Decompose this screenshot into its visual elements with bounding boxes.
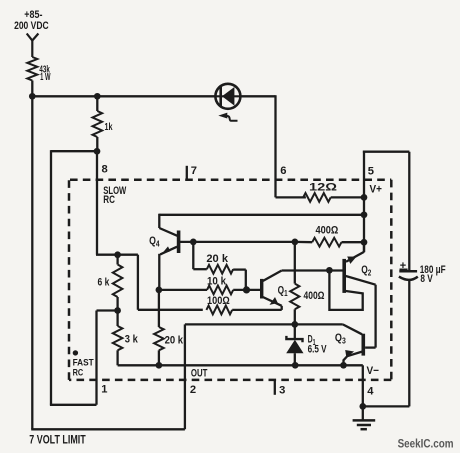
svg-text:1 W: 1 W: [40, 72, 51, 83]
resistor R 400 top: [312, 238, 341, 247]
wire rail 215: [159, 214, 364, 216]
label 180uF: [420, 264, 446, 276]
label 1k: [105, 122, 113, 133]
wire Q4 base rail: [179, 241, 295, 243]
label +85-200 VDC: [14, 9, 49, 32]
wire Q4em to 20kv: [158, 290, 160, 327]
resistor R 10k: [207, 286, 233, 295]
svg-text:2: 2: [190, 384, 196, 396]
label 7 VOLT LIMIT: [29, 434, 85, 446]
resistor R 100ohm: [206, 306, 232, 315]
svg-text:4: 4: [367, 386, 374, 398]
wire D1 rail: [185, 323, 343, 325]
label 43k 1W: [39, 64, 50, 83]
pin 3 stub: [274, 380, 276, 395]
transistor Q3: [343, 324, 364, 365]
svg-text:5: 5: [368, 165, 374, 177]
svg-text:RC: RC: [73, 367, 84, 378]
resistor R 12ohm: [303, 193, 331, 202]
svg-text:10 k: 10 k: [207, 275, 227, 287]
label 400 top: [316, 225, 339, 237]
label 8V: [420, 273, 433, 285]
wire pin6 to 12ohm: [276, 196, 306, 198]
resistor R 43k: [27, 57, 37, 81]
label Q4: [149, 235, 160, 249]
pin 7 label: [191, 165, 197, 177]
wire 20k to 10k node: [233, 270, 246, 290]
watermark SeekIC.com: [398, 438, 454, 450]
LED light arrow: [218, 113, 237, 121]
label Q1: [278, 285, 288, 299]
label Q2: [361, 264, 371, 278]
node 1k bottom junction: [94, 148, 101, 155]
wire Q2 base loop: [329, 270, 362, 310]
wire loop bottom: [50, 404, 97, 406]
svg-text:7: 7: [191, 165, 197, 177]
wire 400low vertical: [294, 242, 296, 284]
node 20k-10k junction: [243, 286, 250, 293]
node 400top left junction: [292, 239, 299, 246]
ground symbol: [353, 406, 376, 429]
wire pin1 lead vertical: [95, 311, 97, 405]
pin 3 label: [279, 384, 285, 396]
wire 20k drop: [193, 242, 207, 269]
svg-text:6: 6: [280, 165, 286, 177]
capacitor C plate bottom: [399, 277, 418, 280]
label Q3: [335, 332, 346, 346]
node 1k top junction: [94, 93, 101, 100]
node rail215 junction: [361, 211, 368, 218]
wire left outer vertical: [31, 96, 33, 429]
label OUT: [191, 367, 208, 379]
label 6k: [98, 276, 110, 288]
svg-text:100Ω: 100Ω: [207, 295, 230, 307]
svg-text:6.5 V: 6.5 V: [308, 343, 327, 355]
wire 400top left lead: [295, 241, 312, 244]
wire left loop vertical: [50, 150, 52, 405]
node D1 top junction: [291, 321, 298, 328]
wire 100ohm right lead: [232, 309, 282, 311]
input terminal arrow: [27, 34, 39, 58]
pin 6 label: [280, 165, 286, 177]
capacitor C plate top: [399, 270, 417, 273]
wire LED to pin6 corner: [241, 95, 276, 197]
svg-text:OUT: OUT: [191, 367, 208, 379]
LED indicator diode: [215, 84, 240, 109]
svg-text:SeekIC.com: SeekIC.com: [398, 438, 454, 450]
wire cap bottom link: [363, 405, 410, 407]
pin 5 label: [368, 165, 374, 177]
label D1: [308, 334, 316, 348]
wire 1k top lead: [96, 96, 98, 111]
node ground junction: [359, 403, 366, 410]
label 20k vert: [165, 335, 184, 347]
label V-: [367, 365, 380, 377]
wire 400low bottom: [294, 309, 296, 324]
wire Q1 collector to Q2 base: [282, 269, 343, 271]
svg-text:400Ω: 400Ω: [316, 225, 339, 237]
svg-text:20 k: 20 k: [206, 253, 228, 265]
IC package dashed outline: [69, 180, 391, 380]
node 6k-3k junction: [114, 307, 121, 314]
resistor R 20k horiz: [207, 265, 233, 274]
node fast-rc dot: [73, 350, 78, 355]
wire 10k left lead: [159, 289, 207, 291]
wire pin4 vertical: [362, 365, 364, 406]
label 6.5V: [308, 343, 327, 355]
label 10k: [207, 275, 227, 287]
svg-text:RC: RC: [103, 194, 115, 206]
wire 100ohm left riser: [96, 255, 203, 310]
wire 12ohm to V+: [331, 196, 364, 198]
wire bottom outer: [31, 428, 185, 430]
node V+ junction: [361, 194, 368, 201]
wire 6k3k to pin1: [97, 309, 118, 311]
transistor Q1: [262, 271, 282, 310]
resistor R 3k: [113, 311, 123, 366]
svg-text:1: 1: [101, 383, 107, 395]
svg-text:7 VOLT LIMIT: 7 VOLT LIMIT: [29, 434, 85, 446]
pin 8 lead: [96, 151, 98, 255]
node 400top right junction: [361, 239, 368, 246]
svg-text:6 k: 6 k: [98, 276, 110, 288]
svg-text:200 VDC: 200 VDC: [14, 20, 49, 32]
wire right box side: [408, 152, 410, 272]
wire slow-rc horizontal: [51, 150, 97, 152]
svg-text:3 k: 3 k: [125, 333, 139, 345]
wire top rail: [32, 95, 215, 97]
transistor Q2: [344, 242, 364, 293]
wire pin5 V+ line: [363, 151, 365, 253]
svg-text:V+: V+: [370, 184, 383, 196]
wire 10k to Q1 base: [233, 289, 260, 291]
label V+: [370, 184, 383, 196]
node Q4 base junction: [190, 239, 197, 246]
label FAST RC: [73, 357, 94, 378]
label 100ohm: [207, 295, 230, 307]
svg-text:3: 3: [279, 384, 285, 396]
pin 1 label: [101, 383, 107, 395]
wire 1k bottom lead: [96, 137, 98, 151]
node Q2 base junction: [326, 267, 333, 274]
wire pin2 vertical: [184, 324, 186, 429]
diode D1 zener: [286, 324, 303, 365]
svg-text:8 V: 8 V: [420, 273, 433, 285]
wire right box top: [363, 151, 410, 153]
svg-text:12Ω: 12Ω: [309, 181, 337, 193]
wire 43k to junction: [31, 81, 33, 97]
pin 4 label: [367, 386, 374, 398]
label 400 low: [304, 290, 325, 302]
svg-text:1k: 1k: [105, 122, 113, 133]
svg-text:20 k: 20 k: [165, 335, 184, 347]
resistor R 20k vert: [154, 327, 164, 365]
svg-text:V−: V−: [367, 365, 380, 377]
pin 2 label: [190, 384, 196, 396]
label 3k: [125, 333, 139, 345]
wire cap bottom lead: [408, 280, 410, 406]
resistor R 400 low: [290, 284, 299, 310]
svg-text:400Ω: 400Ω: [304, 290, 325, 302]
resistor R 1k: [93, 111, 103, 137]
transistor Q4: [159, 214, 178, 290]
label 20k horiz: [206, 253, 228, 265]
wire OUT rail: [118, 364, 363, 366]
node 6k top junction: [114, 251, 121, 258]
node 10k left junction: [156, 287, 163, 294]
node Q3 emitter junction: [340, 362, 347, 369]
wire Q2 collector to Q3 base: [346, 276, 376, 348]
label cap plus: [400, 260, 408, 272]
wire 400top right lead: [342, 241, 365, 243]
label 12ohm: [309, 181, 337, 193]
node top-left junction: [29, 93, 36, 100]
pin 7 stub: [186, 166, 188, 181]
svg-text:8: 8: [102, 164, 108, 176]
pin 8 label: [102, 164, 108, 176]
label SLOW RC: [103, 185, 127, 206]
node D1 bottom junction: [292, 362, 299, 369]
resistor R 6k: [113, 255, 123, 311]
node 20kv out junction: [156, 362, 163, 369]
